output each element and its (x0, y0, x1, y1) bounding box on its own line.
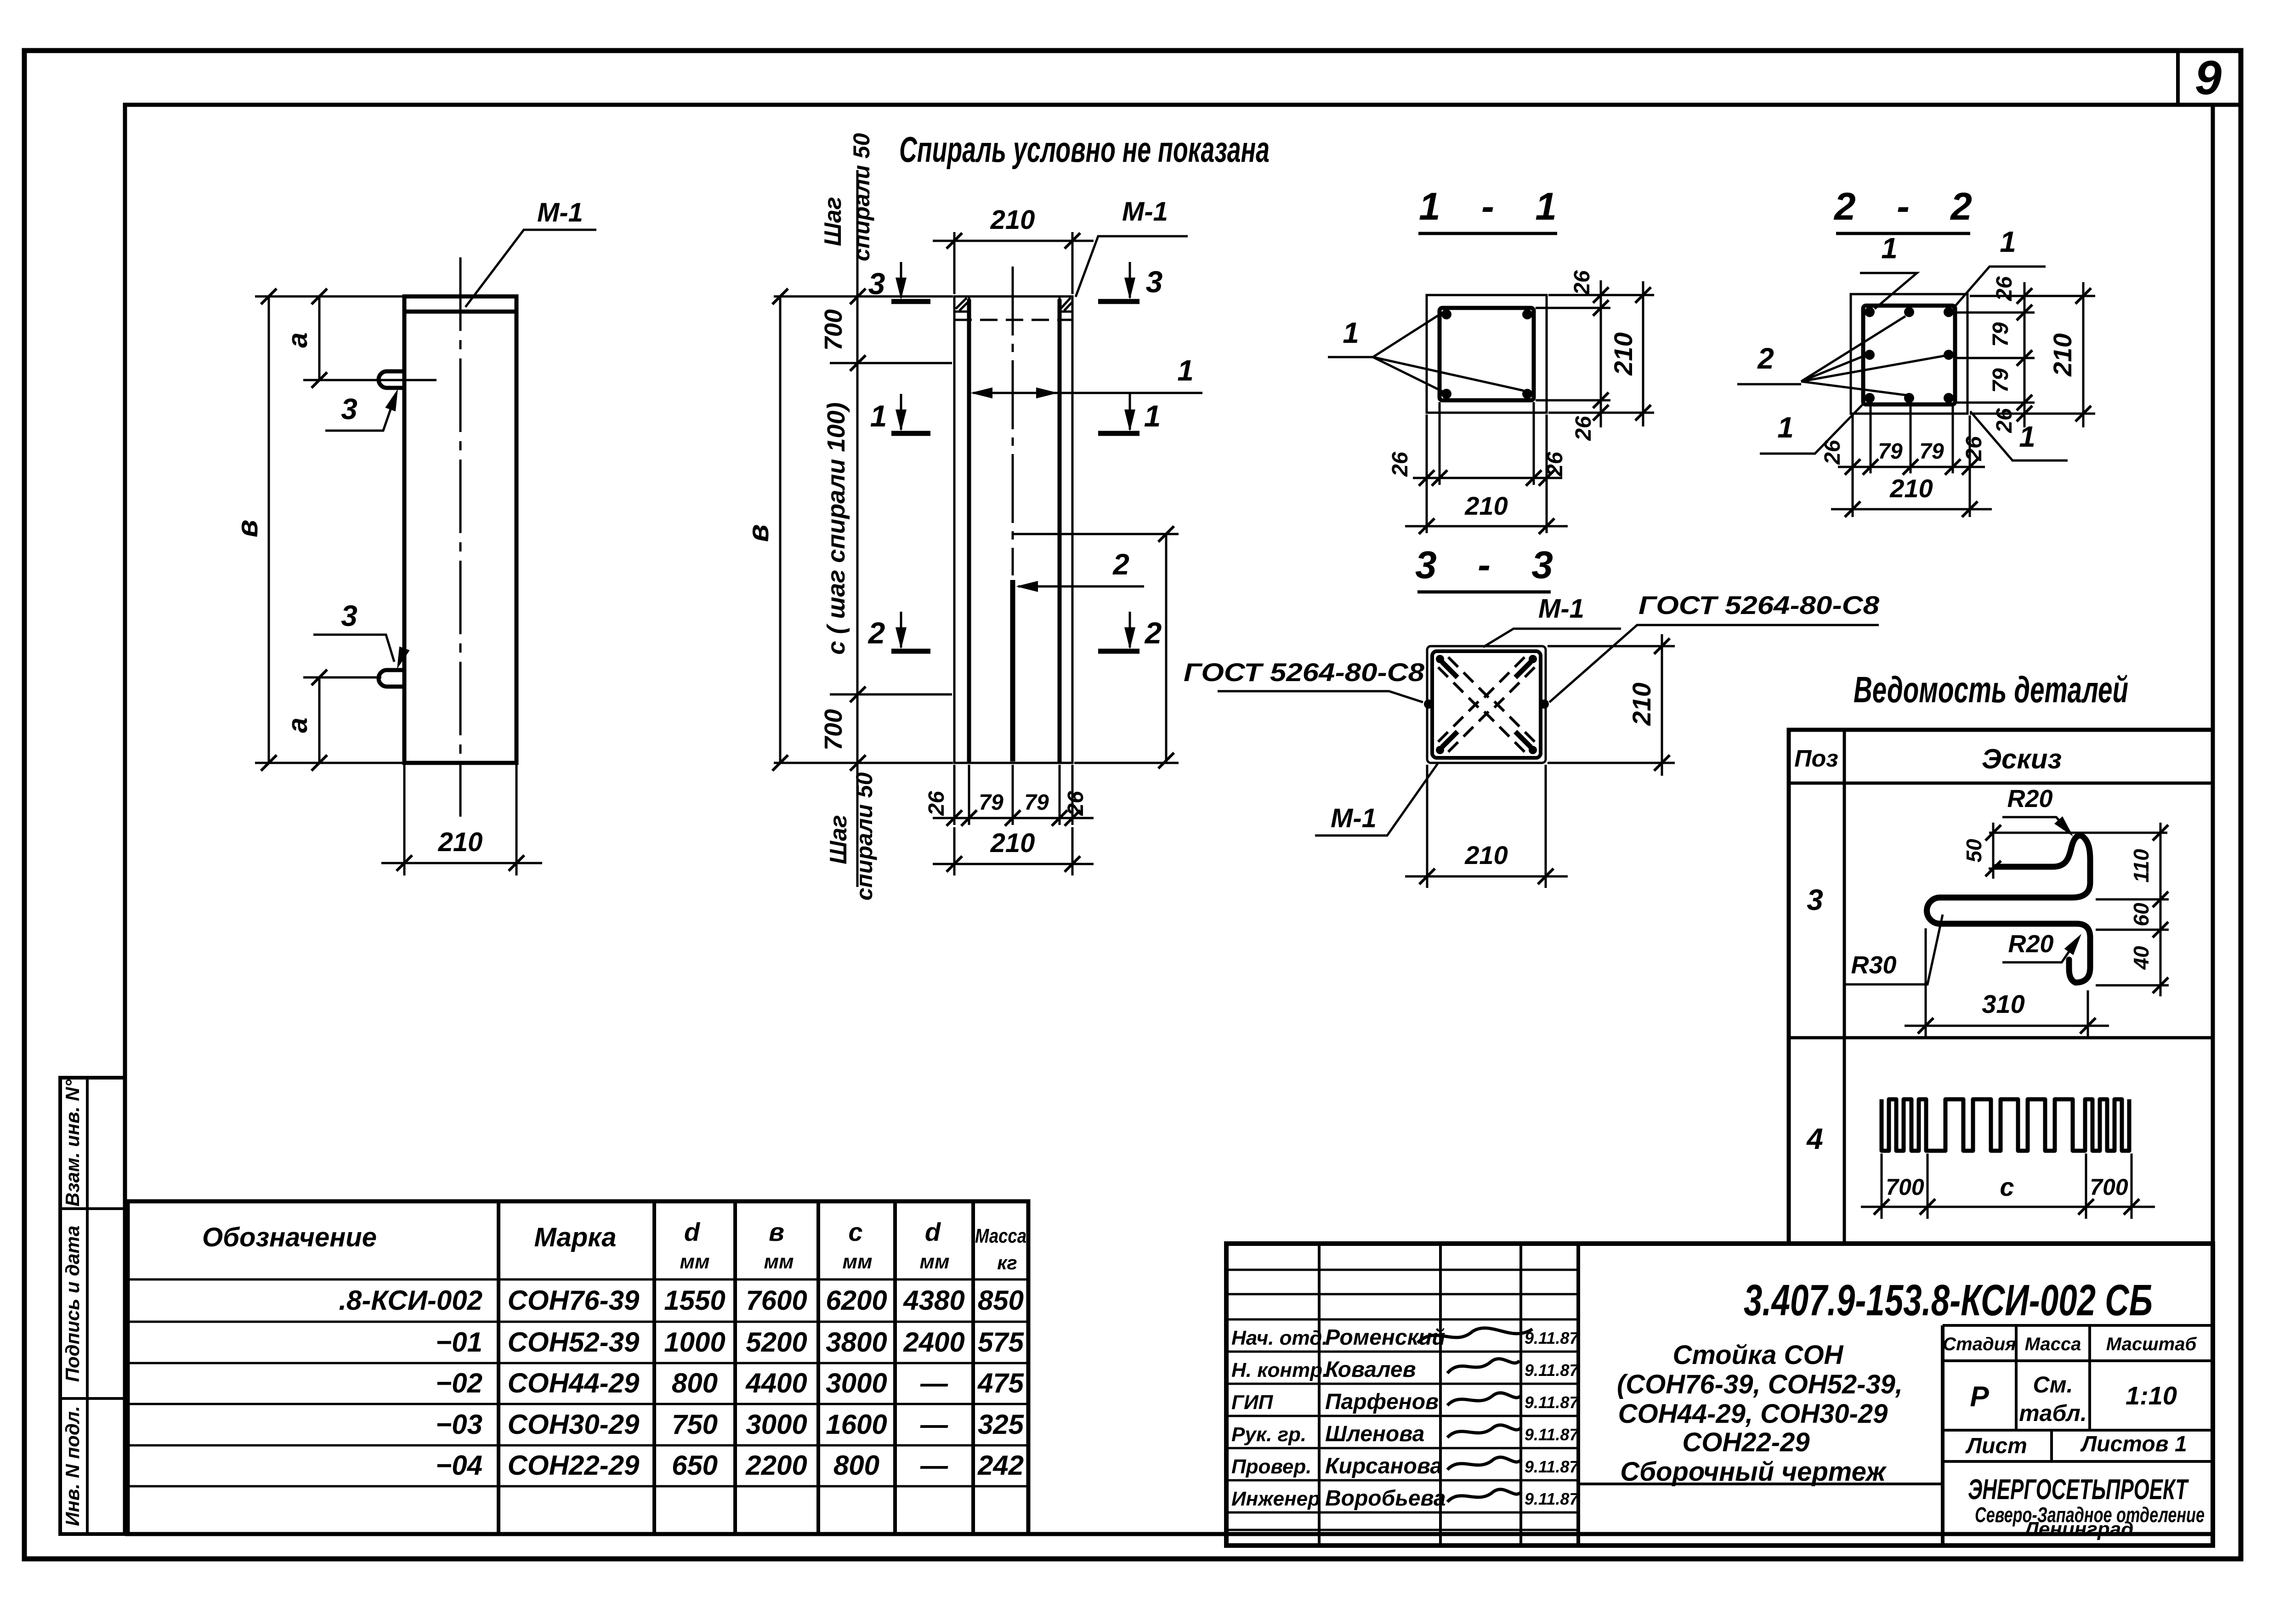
svg-text:79: 79 (1024, 790, 1049, 815)
svg-text:26: 26 (924, 791, 949, 816)
section 2-2 title (1833, 185, 1972, 233)
view2 section mark 2 left (867, 612, 930, 651)
title block stadia grid (1943, 1325, 2213, 1461)
label Инв. № подл. (62, 1406, 83, 1526)
svg-text:Масштаб: Масштаб (2106, 1334, 2197, 1354)
svg-text:М-1: М-1 (1331, 803, 1377, 833)
svg-text:79: 79 (1878, 439, 1903, 464)
svg-text:в: в (742, 524, 775, 542)
svg-text:−02: −02 (436, 1368, 482, 1398)
svg-text:210: 210 (1609, 332, 1638, 375)
svg-text:9.11.87: 9.11.87 (1525, 1457, 1579, 1476)
svg-text:26: 26 (1820, 440, 1845, 465)
title block middle divider (1578, 1483, 1943, 1485)
svg-text:Ведомость деталей: Ведомость деталей (1854, 669, 2128, 710)
svg-text:1: 1 (1343, 316, 1359, 349)
view2 section mark 2 right (1098, 612, 1162, 651)
svg-text:R30: R30 (1851, 951, 1896, 979)
view2 section mark 1 right (1098, 394, 1161, 433)
svg-text:М-1: М-1 (537, 198, 583, 227)
svg-text:575: 575 (978, 1327, 1025, 1358)
parts list title (1854, 669, 2128, 710)
dimension table row -04 (436, 1450, 1024, 1481)
svg-text:Обозначение: Обозначение (202, 1222, 377, 1252)
svg-text:850: 850 (978, 1285, 1024, 1316)
svg-text:3: 3 (1146, 265, 1163, 299)
svg-text:Поз: Поз (1794, 745, 1838, 772)
view2 post outline (954, 296, 1072, 763)
view1 leader 3 bottom (313, 599, 410, 671)
svg-text:a: a (282, 332, 313, 347)
svg-text:d: d (684, 1217, 701, 1246)
svg-text:−01: −01 (436, 1327, 482, 1358)
view2 section mark 3 right (1098, 262, 1162, 301)
svg-text:спирали 50: спирали 50 (849, 133, 874, 261)
svg-text:d: d (925, 1217, 941, 1246)
section 3-3 anchor rods X pattern (1438, 657, 1535, 752)
svg-text:26: 26 (1992, 276, 2017, 301)
svg-text:СОН44-29: СОН44-29 (508, 1368, 640, 1398)
svg-text:Шленова: Шленова (1325, 1422, 1424, 1446)
view2 dimension в (742, 289, 953, 771)
section 3-3 callout GOST top right (1549, 591, 1880, 702)
svg-text:210: 210 (990, 828, 1035, 858)
section 2-2 stirrup (1863, 306, 1955, 404)
parts list table frame (1789, 730, 2213, 1244)
svg-text:ГОСТ 5264-80-С8: ГОСТ 5264-80-С8 (1184, 658, 1425, 687)
svg-text:ЭНЕРГОСЕТЬПРОЕКТ: ЭНЕРГОСЕТЬПРОЕКТ (1968, 1474, 2189, 1506)
svg-text:СОН44-29, СОН30-29: СОН44-29, СОН30-29 (1618, 1399, 1888, 1429)
item 3 loop shape (1927, 835, 2091, 983)
label Взам. инв. № (62, 1079, 83, 1207)
svg-text:7600: 7600 (746, 1285, 807, 1316)
svg-text:мм: мм (919, 1250, 949, 1273)
svg-text:9: 9 (2195, 51, 2222, 105)
svg-text:79: 79 (1989, 322, 2013, 347)
title block signature rows (1231, 1325, 1579, 1511)
item 4 spiral sketch (1882, 1099, 2129, 1151)
section 3-3 anchor end bars (1442, 662, 1531, 747)
svg-text:40: 40 (2129, 946, 2153, 970)
svg-text:Масса: Масса (975, 1225, 1026, 1247)
svg-text:9.11.87: 9.11.87 (1525, 1329, 1579, 1347)
view1 dimension 210 (381, 763, 542, 875)
svg-text:ГОСТ 5264-80-С8: ГОСТ 5264-80-С8 (1638, 591, 1880, 619)
section 2-2 leader 1 bottom-left (1760, 403, 1864, 454)
svg-text:9.11.87: 9.11.87 (1525, 1393, 1579, 1412)
svg-text:650: 650 (672, 1450, 718, 1481)
svg-text:210: 210 (990, 205, 1035, 235)
svg-text:СОН30-29: СОН30-29 (508, 1409, 640, 1440)
svg-text:табл.: табл. (2019, 1400, 2087, 1426)
svg-text:Ленинград: Ленинград (2024, 1518, 2134, 1540)
svg-text:60: 60 (2129, 903, 2153, 926)
view1 callout M-1 (465, 198, 596, 307)
svg-text:спирали 50: спирали 50 (851, 772, 877, 900)
svg-text:с ( шаг спирали 100): с ( шаг спирали 100) (822, 402, 850, 654)
view2 dimension 210 top (933, 205, 1094, 294)
svg-text:50: 50 (1962, 839, 1986, 863)
svg-text:Парфенов: Парфенов (1325, 1390, 1439, 1414)
svg-text:2: 2 (867, 616, 885, 650)
svg-text:9.11.87: 9.11.87 (1525, 1361, 1579, 1380)
svg-text:Взам. инв. N°: Взам. инв. N° (62, 1079, 83, 1207)
svg-text:1000: 1000 (664, 1327, 725, 1358)
svg-text:4: 4 (1806, 1122, 1823, 1155)
svg-text:110: 110 (2129, 849, 2153, 883)
svg-text:26: 26 (1570, 270, 1594, 296)
svg-text:26: 26 (1571, 416, 1596, 441)
title block left grid (1226, 1270, 1578, 1530)
title block stadia headers (1943, 1334, 2197, 1354)
svg-text:79: 79 (1989, 368, 2013, 393)
svg-text:мм: мм (764, 1250, 794, 1273)
view1 dimension a bottom (282, 670, 381, 771)
section 2-2 dimension 210 bottom (1831, 474, 1992, 517)
svg-text:a: a (282, 717, 313, 733)
svg-text:Стойка СОН: Стойка СОН (1673, 1340, 1844, 1370)
svg-text:2200: 2200 (745, 1450, 807, 1481)
dimension table row .8-КСИ-002 (339, 1285, 1024, 1316)
section 1-1 bottom chain 26 26 (1388, 402, 1567, 533)
section 3-3 callout M-1 bottom (1315, 763, 1438, 835)
svg-text:210: 210 (1464, 491, 1508, 520)
svg-text:—: — (920, 1450, 948, 1481)
svg-text:1:10: 1:10 (2126, 1381, 2177, 1410)
item 3 label R20 bottom (2002, 930, 2086, 962)
svg-text:Стадия: Стадия (1943, 1334, 2016, 1354)
svg-text:26: 26 (1543, 452, 1567, 477)
title block frame (1226, 1244, 2213, 1546)
svg-text:2400: 2400 (903, 1327, 964, 1358)
svg-text:Ковалев: Ковалев (1325, 1358, 1416, 1382)
sheet number box 9 (2178, 51, 2222, 105)
section 3-3 dimension 210 bottom (1405, 765, 1568, 888)
svg-text:1: 1 (2019, 420, 2035, 453)
section 1-1 leader 1 (1328, 313, 1524, 392)
svg-text:3: 3 (1807, 883, 1823, 916)
title block organization (1968, 1474, 2205, 1540)
svg-text:с: с (2000, 1172, 2014, 1201)
svg-text:3000: 3000 (826, 1368, 887, 1398)
section 3-3 callout GOST left (1184, 658, 1425, 702)
svg-text:3000: 3000 (746, 1409, 807, 1440)
section 1-1 title (1418, 185, 1557, 233)
section 1-1 stirrup (1440, 308, 1534, 400)
section 1-1 right chain 26 (1536, 270, 1654, 441)
svg-text:26: 26 (1962, 436, 1986, 461)
svg-text:Масса: Масса (2025, 1334, 2081, 1354)
svg-text:750: 750 (672, 1409, 718, 1440)
svg-text:Провер.: Провер. (1231, 1455, 1311, 1478)
note: spiral conventionally not shown (899, 129, 1270, 170)
svg-text:—: — (920, 1368, 948, 1398)
item 3 dimension 310 (1905, 928, 2109, 1038)
svg-text:Шаг: Шаг (820, 197, 846, 246)
svg-text:1: 1 (1177, 354, 1194, 387)
svg-text:310: 310 (1982, 989, 2024, 1018)
section 3-3 concrete outline (1427, 646, 1546, 763)
svg-text:мм: мм (680, 1250, 709, 1273)
svg-text:1: 1 (1777, 411, 1794, 444)
svg-text:Подпись и дата: Подпись и дата (62, 1226, 83, 1382)
item 3 label R30 (1846, 915, 1943, 984)
svg-text:79: 79 (1919, 439, 1944, 464)
svg-text:210: 210 (1627, 682, 1656, 726)
svg-text:мм: мм (842, 1250, 872, 1273)
svg-text:R20: R20 (2007, 785, 2052, 813)
view2 chain dimension line (850, 170, 866, 887)
view2 end plate corner right (1060, 296, 1072, 312)
view2 bottom chain 26 79 79 26 (924, 765, 1094, 826)
svg-text:Эскиз: Эскиз (1982, 744, 2062, 774)
view2 ext line 700 top (830, 362, 952, 364)
svg-text:Р: Р (1970, 1381, 1989, 1413)
svg-text:Кирсанова: Кирсанова (1325, 1454, 1442, 1478)
view2 dimension 210 bottom (933, 827, 1094, 875)
section 2-2 leader 1 top-left (1860, 232, 1917, 309)
view2 centerline (1012, 267, 1014, 575)
view2 rebar 1 right (1058, 299, 1062, 763)
view1 end plate line (404, 310, 516, 314)
dimension table headers (202, 1217, 1026, 1273)
svg-text:2: 2 (1144, 616, 1162, 650)
svg-text:СОН52-39: СОН52-39 (508, 1327, 640, 1358)
svg-text:М-1: М-1 (1122, 197, 1168, 227)
svg-text:2: 2 (1112, 548, 1129, 581)
view1 dimension в (231, 289, 404, 771)
section 3-3 callout M-1 top (1483, 594, 1621, 647)
svg-text:Инв. N подл.: Инв. N подл. (62, 1406, 83, 1526)
svg-text:ГИП: ГИП (1231, 1391, 1274, 1414)
svg-text:5200: 5200 (746, 1327, 807, 1358)
view2 label spiral pitch 50 bottom (825, 772, 877, 900)
svg-text:800: 800 (672, 1368, 718, 1398)
svg-text:700: 700 (1886, 1174, 1924, 1200)
svg-text:475: 475 (977, 1368, 1025, 1398)
svg-text:26: 26 (1388, 452, 1412, 477)
svg-text:3 - 3: 3 - 3 (1415, 543, 1553, 586)
svg-text:210: 210 (2048, 333, 2077, 376)
item 4 dimensions 700 c 700 (1861, 1154, 2155, 1219)
view1 post outline (404, 296, 516, 763)
section 2-2 leader 1 bottom-right (1970, 411, 2068, 460)
svg-text:Спираль условно не показана: Спираль условно не показана (899, 129, 1270, 170)
svg-text:Инженер: Инженер (1231, 1488, 1320, 1510)
svg-text:1550: 1550 (664, 1285, 725, 1316)
section 3-3 title (1415, 543, 1553, 592)
svg-text:М-1: М-1 (1538, 594, 1584, 624)
section 1-1 concrete outline (1427, 295, 1547, 413)
svg-text:СОН76-39: СОН76-39 (508, 1285, 640, 1316)
svg-text:700: 700 (820, 709, 847, 750)
svg-text:4400: 4400 (745, 1368, 807, 1398)
view2 hidden plate edge (954, 319, 1072, 321)
section 2-2 rebar dots (1865, 307, 1954, 403)
svg-text:26: 26 (1064, 791, 1088, 816)
dimension table row -02 (436, 1368, 1024, 1398)
svg-text:2 - 2: 2 - 2 (1833, 185, 1972, 228)
svg-text:9.11.87: 9.11.87 (1525, 1489, 1579, 1508)
view2 rebar 1 left (967, 299, 971, 763)
svg-text:210: 210 (1464, 841, 1508, 870)
view2 end plate corner left (954, 296, 969, 312)
view2 ext line 700 bottom (830, 693, 952, 696)
svg-text:R20: R20 (2008, 930, 2053, 958)
svg-text:СОН22-29: СОН22-29 (508, 1450, 640, 1481)
svg-text:1: 1 (870, 399, 887, 433)
dimension table row -03 (436, 1409, 1024, 1440)
svg-text:3: 3 (341, 392, 357, 426)
svg-text:СОН22-29: СОН22-29 (1682, 1427, 1809, 1457)
svg-text:210: 210 (1889, 474, 1933, 503)
title block sheet row (1965, 1432, 2187, 1458)
view1 lifting loop top (379, 371, 405, 388)
svg-text:1: 1 (2000, 225, 2016, 258)
item 3 label R20 top (2002, 785, 2077, 840)
svg-text:800: 800 (833, 1450, 879, 1481)
view2 rod 2 (1010, 580, 1015, 762)
svg-text:3: 3 (341, 599, 357, 632)
section 2-2 right chain 26 79 79 26 (1957, 276, 2095, 433)
view2 label spiral pitch 50 top (820, 133, 874, 261)
section 2-2 dimension 210 right (2048, 282, 2091, 427)
svg-text:1600: 1600 (826, 1409, 887, 1440)
section 3-3 dimension 210 right (1548, 634, 1675, 776)
section 2-2 leader 2 (1737, 316, 1945, 395)
svg-text:—: — (920, 1409, 948, 1440)
view2 leader 1 to rebars (970, 354, 1202, 398)
svg-text:−04: −04 (436, 1450, 482, 1481)
svg-text:в: в (231, 520, 264, 538)
svg-text:1: 1 (1144, 399, 1161, 433)
view2 section mark 1 left (870, 394, 930, 433)
svg-text:Воробьева: Воробьева (1325, 1486, 1446, 1511)
section 2-2 bottom chain 26 79 79 26 (1820, 404, 1986, 517)
svg-text:700: 700 (820, 309, 847, 351)
svg-text:26: 26 (1992, 408, 2017, 433)
svg-text:(СОН76-39, СОН52-39,: (СОН76-39, СОН52-39, (1617, 1370, 1903, 1399)
svg-text:кг: кг (997, 1252, 1017, 1273)
item 3 dimension 50 (1962, 823, 2167, 879)
svg-text:242: 242 (977, 1450, 1024, 1481)
svg-text:с: с (848, 1217, 862, 1246)
dimension table frame (128, 1201, 1028, 1534)
view1 centerline (459, 257, 462, 817)
view2 leader 2 to rod (1016, 548, 1144, 592)
svg-text:Н. контр.: Н. контр. (1231, 1359, 1328, 1381)
section 1-1 dimension 210 bottom (1405, 491, 1568, 534)
view1 leader 3 top (325, 387, 403, 431)
svg-text:3800: 3800 (826, 1327, 887, 1358)
svg-text:Сборочный чертеж: Сборочный чертеж (1620, 1457, 1887, 1487)
svg-text:9.11.87: 9.11.87 (1525, 1425, 1579, 1444)
section 3-3 plate outline (1432, 651, 1541, 758)
section 1-1 rebar dots (1441, 309, 1532, 399)
section 2-2 leader 1 top-right (1953, 225, 2046, 309)
view2 callout M-1 (1076, 197, 1188, 297)
dimension table row -01 (436, 1327, 1024, 1358)
svg-text:Марка: Марка (534, 1222, 616, 1252)
svg-text:6200: 6200 (826, 1285, 887, 1316)
svg-text:в: в (769, 1217, 784, 1246)
label Подпись и дата (62, 1226, 83, 1382)
view2 section mark 3 left (868, 262, 930, 301)
svg-text:См.: См. (2033, 1372, 2073, 1398)
svg-text:1: 1 (1881, 232, 1898, 265)
svg-text:Шаг: Шаг (825, 815, 852, 864)
section 3-3 weld dots (1424, 655, 1549, 754)
svg-text:700: 700 (2090, 1174, 2128, 1200)
svg-text:.8-КСИ-002: .8-КСИ-002 (339, 1285, 482, 1316)
left attribute strip frame (60, 1078, 125, 1534)
svg-text:325: 325 (978, 1409, 1025, 1440)
view2 rod 2 length dimension (1013, 526, 1179, 768)
view1 lifting loop bottom (379, 670, 405, 687)
title block stadia values (1970, 1372, 2177, 1426)
svg-text:4380: 4380 (903, 1285, 964, 1316)
title block name СОН lines (1617, 1340, 1903, 1487)
svg-text:210: 210 (438, 827, 483, 857)
svg-text:Лист: Лист (1965, 1434, 2027, 1458)
svg-text:Листов 1: Листов 1 (2080, 1432, 2187, 1456)
section 2-2 concrete outline (1851, 294, 1967, 414)
svg-text:−03: −03 (436, 1409, 482, 1440)
title block signatures (1417, 1328, 1532, 1502)
svg-text:79: 79 (979, 790, 1003, 815)
svg-text:2: 2 (1757, 342, 1774, 375)
view1 dimension a top (282, 289, 437, 388)
svg-text:Рук. гр.: Рук. гр. (1231, 1423, 1306, 1446)
svg-text:3.407.9-153.8-КСИ-002 СБ: 3.407.9-153.8-КСИ-002 СБ (1744, 1276, 2153, 1325)
svg-text:Нач. отд.: Нач. отд. (1231, 1327, 1328, 1349)
item 3 right chain 110 60 40 (2096, 823, 2169, 996)
svg-text:1 - 1: 1 - 1 (1419, 185, 1557, 228)
section 1-1 dimension 210 right (1609, 281, 1651, 426)
